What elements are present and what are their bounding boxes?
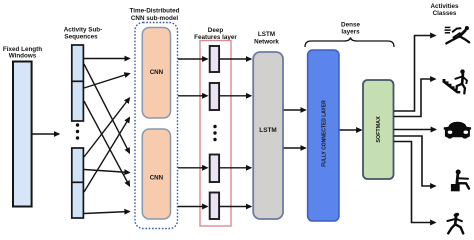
arrow LSTM to FC lower xyxy=(284,147,306,149)
icon: climbing stairs person xyxy=(443,69,468,93)
crossing arrow c4 to CNN1 xyxy=(84,118,130,193)
dense layers brace xyxy=(305,38,394,48)
feature vector rect 3 xyxy=(210,155,219,183)
feature vector rect 1 xyxy=(210,46,219,72)
sub-sequence stack bottom xyxy=(72,148,84,218)
fixed-length windows rect xyxy=(13,62,32,207)
CNN box 2 xyxy=(142,129,170,219)
crossing arrow c1 to CNN2 xyxy=(84,64,130,153)
sub-sequence stack top xyxy=(72,45,84,121)
crossing arrow c1 to CNN1 xyxy=(84,58,130,60)
svg-text:CNN: CNN xyxy=(150,69,164,76)
svg-text:Dense: Dense xyxy=(341,21,360,28)
arrow CNN1 to feature 2 xyxy=(178,95,207,97)
arrow CNN2 to feature 4 xyxy=(178,206,207,208)
icon: car xyxy=(444,122,471,139)
arrow feature 3 to LSTM xyxy=(220,167,252,169)
svg-text:FULLY CONNECTED LAYER: FULLY CONNECTED LAYER xyxy=(321,100,327,167)
svg-text:SOFTMAX: SOFTMAX xyxy=(376,116,382,143)
softmax fan line to car icon xyxy=(394,129,436,131)
icon: walking person xyxy=(447,212,463,233)
svg-text:LSTM: LSTM xyxy=(258,31,275,38)
softmax box xyxy=(363,80,394,179)
crossing arrow c4 to CNN2 xyxy=(84,212,130,214)
fully connected layer box xyxy=(308,50,339,221)
crossing arrow c2 to CNN1 xyxy=(84,74,130,89)
ellipsis between stacks xyxy=(76,123,79,139)
svg-text:Sequences: Sequences xyxy=(64,33,98,40)
deep features red box xyxy=(200,41,231,227)
crossing arrow c3 to CNN1 xyxy=(84,98,130,157)
softmax fan line to sitting icon xyxy=(394,136,436,186)
arrow feature 1 to LSTM xyxy=(220,58,252,60)
crossing arrow c2 to CNN2 xyxy=(84,101,130,186)
CNN box 1 xyxy=(142,28,170,119)
softmax fan line to running icon xyxy=(394,36,436,112)
feature vector rect 2 xyxy=(210,83,219,110)
svg-text:layers: layers xyxy=(341,29,360,36)
arrow windows to sub-sequences xyxy=(33,133,60,135)
time-distributed dashed box xyxy=(135,23,178,229)
svg-text:Activities: Activities xyxy=(431,3,459,10)
arrow feature 4 to LSTM xyxy=(220,206,252,208)
feature vector rect 4 xyxy=(210,193,219,220)
crossing arrow c3 to CNN2 xyxy=(84,170,130,173)
softmax fan line to walking icon xyxy=(394,142,436,223)
arrow CNN2 to feature 3 xyxy=(178,167,207,169)
svg-text:CNN: CNN xyxy=(150,175,164,182)
arrow FC to softmax xyxy=(340,129,362,131)
svg-text:LSTM: LSTM xyxy=(259,127,276,134)
svg-text:Network: Network xyxy=(254,38,279,45)
icon: running person xyxy=(445,26,470,43)
LSTM box xyxy=(253,52,283,219)
softmax fan line to stairs icon xyxy=(394,79,436,117)
svg-text:Windows: Windows xyxy=(9,53,37,60)
svg-text:Time-Distributed: Time-Distributed xyxy=(130,8,180,15)
icon: sitting person xyxy=(451,170,469,192)
svg-text:Deep: Deep xyxy=(208,27,224,34)
arrow CNN1 to feature 1 xyxy=(178,58,207,60)
arrow feature 2 to LSTM xyxy=(220,95,252,97)
svg-text:CNN sub-model: CNN sub-model xyxy=(131,15,178,22)
svg-text:Classes: Classes xyxy=(433,10,457,17)
arrow LSTM to FC upper xyxy=(284,109,306,111)
ellipsis between feature vectors xyxy=(213,125,216,141)
